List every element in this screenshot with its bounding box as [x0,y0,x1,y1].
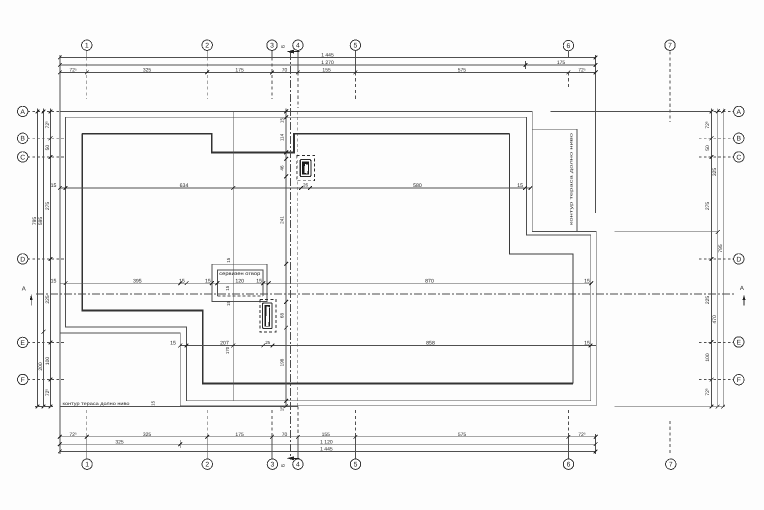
svg-text:3: 3 [270,43,274,50]
svg-text:1 120: 1 120 [320,439,333,445]
svg-text:325: 325 [712,168,718,177]
svg-text:200: 200 [38,362,44,371]
svg-text:6: 6 [567,462,571,469]
svg-text:100: 100 [45,357,51,366]
svg-text:325: 325 [143,432,152,438]
svg-text:120: 120 [235,278,244,284]
svg-text:225: 225 [45,295,51,304]
svg-text:C: C [736,154,741,161]
svg-text:241: 241 [279,216,284,224]
svg-text:595: 595 [38,217,44,226]
svg-text:15: 15 [226,257,231,262]
svg-text:контур тераса долно ниво: контур тераса долно ниво [569,132,574,225]
svg-text:A: A [22,285,26,292]
svg-text:7: 7 [669,462,673,469]
svg-text:175: 175 [235,432,244,438]
svg-text:575: 575 [458,432,467,438]
svg-text:3: 3 [271,462,275,469]
svg-text:275: 275 [705,202,711,211]
svg-text:15: 15 [205,278,211,284]
svg-text:175: 175 [557,60,566,66]
svg-text:E: E [737,339,742,346]
svg-text:A: A [740,285,744,292]
svg-text:207: 207 [220,341,229,347]
svg-text:1: 1 [85,43,89,50]
svg-text:175: 175 [235,68,244,74]
svg-text:15: 15 [170,341,176,347]
svg-text:A: A [737,109,742,116]
svg-text:1 270: 1 270 [321,60,334,66]
svg-text:6: 6 [567,43,571,50]
svg-text:634: 634 [180,183,189,189]
svg-text:795: 795 [32,217,38,226]
svg-text:275: 275 [45,202,51,211]
svg-text:68: 68 [279,313,284,319]
svg-text:B: B [20,136,25,143]
svg-text:15: 15 [225,285,230,290]
svg-text:Б: Б [280,45,286,48]
svg-text:2: 2 [205,43,209,50]
svg-text:198: 198 [279,358,284,366]
svg-text:395: 395 [133,278,142,284]
svg-text:4: 4 [296,462,300,469]
svg-text:7: 7 [668,43,672,50]
svg-text:114: 114 [279,133,284,141]
svg-text:сервизен отвор: сервизен отвор [219,272,260,277]
svg-text:795: 795 [718,244,724,253]
svg-text:15: 15 [279,118,284,124]
svg-text:F: F [737,377,741,384]
svg-text:1: 1 [85,462,89,469]
svg-text:D: D [736,256,741,263]
svg-text:15: 15 [584,278,590,284]
svg-text:Б: Б [281,464,287,467]
svg-text:575: 575 [458,68,467,74]
svg-text:15: 15 [51,278,57,284]
svg-text:155: 155 [322,68,331,74]
svg-text:15: 15 [179,278,185,284]
svg-text:F: F [21,377,25,384]
svg-text:325: 325 [115,439,124,445]
svg-text:B: B [737,136,742,143]
svg-text:470: 470 [712,315,718,324]
svg-text:5: 5 [354,43,358,50]
svg-text:70: 70 [282,68,288,74]
svg-text:15: 15 [279,406,284,411]
svg-text:1 445: 1 445 [321,53,334,59]
svg-text:C: C [20,154,25,161]
svg-text:E: E [20,340,25,347]
svg-text:25: 25 [265,340,270,345]
svg-text:4: 4 [296,43,300,50]
svg-text:контур тераса долно ниво: контур тераса долно ниво [63,401,131,406]
svg-text:A: A [20,109,25,116]
svg-text:70: 70 [282,432,288,438]
svg-text:325: 325 [143,68,152,74]
svg-text:100: 100 [705,353,711,362]
svg-text:15: 15 [584,341,590,347]
svg-text:15: 15 [226,301,231,306]
svg-text:870: 870 [425,278,434,284]
svg-text:15: 15 [51,183,57,189]
svg-text:5: 5 [354,462,358,469]
svg-text:225: 225 [705,296,711,305]
svg-text:15: 15 [256,278,262,284]
svg-text:2: 2 [205,462,209,469]
svg-text:155: 155 [322,432,331,438]
svg-text:50: 50 [705,145,711,151]
svg-text:170: 170 [225,346,230,354]
svg-text:50: 50 [45,145,51,151]
svg-text:1 445: 1 445 [320,447,333,453]
svg-text:26: 26 [303,183,309,188]
svg-text:46: 46 [279,165,284,171]
svg-text:580: 580 [413,183,422,189]
svg-text:15: 15 [517,183,523,189]
svg-text:15: 15 [151,400,156,405]
svg-text:858: 858 [426,341,435,347]
svg-text:D: D [20,256,25,263]
